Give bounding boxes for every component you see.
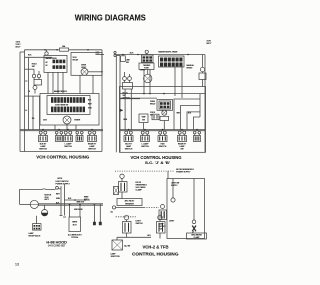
svg-text:RESET: RESET — [187, 68, 194, 70]
svg-text:WIRING DIAGRAMS: WIRING DIAGRAMS — [75, 13, 146, 22]
svg-text:RECEPTACLE: RECEPTACLE — [29, 234, 42, 237]
svg-text:RELAY: RELAY — [73, 58, 80, 61]
svg-text:WIRE NUT: WIRE NUT — [77, 202, 85, 204]
svg-text:60CY: 60CY — [16, 47, 22, 49]
svg-text:SW: SW — [126, 62, 129, 64]
svg-text:SWITCH: SWITCH — [141, 146, 149, 148]
svg-text:WHT: WHT — [56, 194, 60, 196]
svg-text:SWITCH: SWITCH — [159, 146, 167, 148]
svg-text:115: 115 — [32, 118, 35, 120]
svg-text:RELAY: RELAY — [150, 103, 156, 106]
svg-text:WIRE: WIRE — [72, 222, 78, 224]
svg-text:LIGHT: LIGHT — [140, 69, 146, 71]
svg-text:SWITCH: SWITCH — [39, 148, 47, 150]
svg-text:BREAKER: BREAKER — [125, 202, 134, 205]
svg-text:VCH CONTROL HOUSING: VCH CONTROL HOUSING — [36, 155, 89, 160]
svg-text:SWITCH: SWITCH — [88, 148, 96, 150]
svg-text:LIGHT: LIGHT — [169, 221, 175, 223]
svg-text:13: 13 — [15, 262, 19, 266]
svg-text:JUNCTION: JUNCTION — [111, 256, 121, 258]
svg-text:POWER SUPPLY: POWER SUPPLY — [176, 172, 191, 174]
svg-text:S.C. 'J' & 'B': S.C. 'J' & 'B' — [145, 160, 170, 165]
svg-text:MAGNETRON: MAGNETRON — [46, 57, 58, 60]
svg-text:WHT: WHT — [177, 112, 181, 114]
svg-text:14-2 BX: 14-2 BX — [124, 245, 131, 247]
svg-text:60CY: 60CY — [207, 43, 212, 45]
svg-text:TIMER: TIMER — [74, 120, 81, 122]
svg-text:L-1: L-1 — [25, 110, 27, 112]
svg-text:SWITCH: SWITCH — [136, 223, 144, 225]
svg-text:SWITCH: SWITCH — [64, 146, 72, 148]
svg-text:SUPPLY: SUPPLY — [171, 185, 178, 187]
svg-text:SW: SW — [180, 148, 183, 150]
svg-text:L-1: L-1 — [25, 80, 28, 82]
svg-text:GRD WIRE: GRD WIRE — [74, 209, 83, 211]
svg-text:POWER SUPPLY: POWER SUPPLY — [56, 183, 71, 185]
svg-text:COOK TIMER SW: COOK TIMER SW — [55, 104, 69, 106]
svg-text:VCH-2 & TFB: VCH-2 & TFB — [143, 245, 169, 250]
svg-text:SW: SW — [142, 119, 145, 121]
svg-text:14-3 CORD SET: 14-3 CORD SET — [48, 244, 66, 247]
svg-text:CLAMP: CLAMP — [136, 189, 143, 192]
svg-text:CONTROL HOUSING: CONTROL HOUSING — [132, 251, 179, 256]
svg-text:CLAMP: CLAMP — [194, 236, 201, 239]
svg-text:TYPICAL: TYPICAL — [71, 236, 79, 239]
svg-text:SWITCH: SWITCH — [125, 148, 133, 150]
svg-text:ARC FAULT: ARC FAULT — [125, 200, 136, 203]
svg-text:SW: SW — [150, 114, 153, 116]
